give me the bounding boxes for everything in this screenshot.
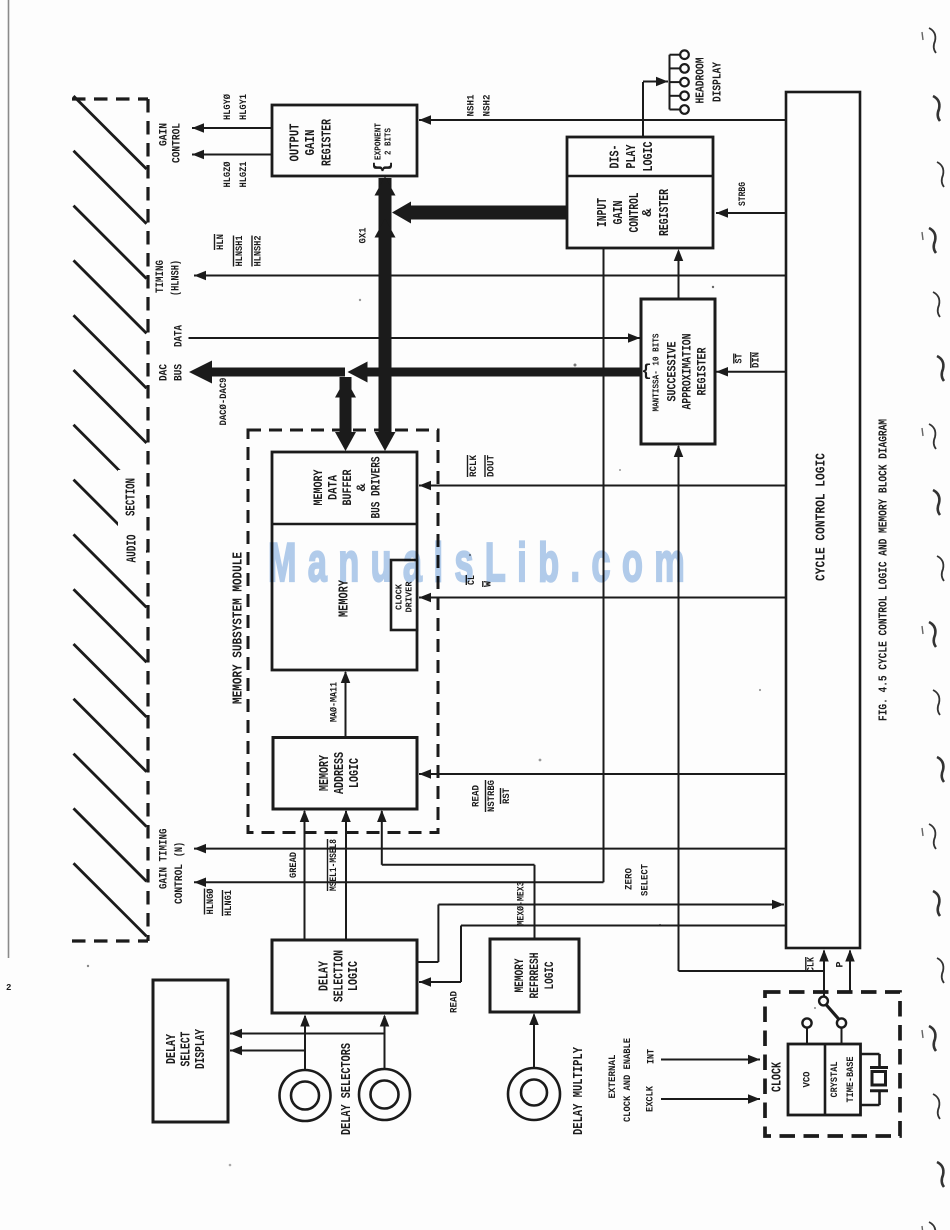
svg-text:HLNSH1: HLNSH1	[234, 236, 246, 267]
svg-text:GAIN: GAIN	[304, 130, 319, 156]
svg-text:GREAD: GREAD	[288, 852, 300, 878]
wire ST DIN	[716, 371, 786, 373]
wire DATA to SAR	[189, 337, 641, 339]
wire headroom display bus	[669, 55, 671, 110]
svg-text:READ: READ	[449, 991, 461, 1013]
wire GREAD feed	[304, 811, 306, 940]
box MEMORY DATA BUFFER	[272, 452, 417, 670]
svg-text:DISPLAY: DISPLAY	[712, 62, 725, 102]
box MEMORY REFRESH LOGIC	[490, 939, 579, 1012]
svg-text:LOGIC: LOGIC	[542, 961, 557, 989]
bus GX1 vertical	[379, 178, 392, 432]
wire CL W to clock driver	[419, 597, 786, 599]
svg-text:MEXØ-MEX3: MEXØ-MEX3	[516, 882, 528, 926]
svg-text:SECTION: SECTION	[125, 478, 140, 516]
wire MEX corner feed	[381, 811, 383, 865]
svg-text:HLNG1: HLNG1	[223, 890, 235, 916]
svg-text:DIS-: DIS-	[609, 145, 624, 169]
box CYCLE CONTROL LOGIC	[786, 92, 860, 948]
svg-text:GAIN: GAIN	[159, 867, 171, 889]
svg-text:ZERO: ZERO	[624, 868, 636, 890]
svg-text:{: {	[641, 363, 651, 382]
svg-text:MSEL1-MSEL8: MSEL1-MSEL8	[328, 839, 340, 891]
svg-text:SELECT: SELECT	[180, 1032, 195, 1067]
box MEMORY ADDRESS LOGIC	[273, 738, 417, 810]
svg-text:LOGIC: LOGIC	[642, 142, 657, 172]
box VCO / CRYSTAL TIME-BASE	[788, 1044, 861, 1115]
svg-text:HLGZ1: HLGZ1	[238, 162, 250, 188]
crystal symbol	[861, 1053, 880, 1056]
headroom display LEDs	[680, 50, 689, 59]
scan dust specks	[574, 364, 577, 367]
wire P to cycle control	[849, 951, 851, 993]
wire gain control upper stub	[192, 127, 272, 129]
svg-text:RCLK: RCLK	[468, 454, 480, 477]
svg-text:(N): (N)	[174, 842, 186, 857]
svg-text:&: &	[641, 208, 656, 217]
box DELAY SELECTION LOGIC	[272, 940, 417, 1013]
svg-text:TIME-BASE: TIME-BASE	[845, 1057, 857, 1103]
wire delay select display lower	[230, 1050, 305, 1052]
svg-text:MEMORY: MEMORY	[318, 754, 333, 791]
svg-text:MEMORY SUBSYSTEM MODULE: MEMORY SUBSYSTEM MODULE	[232, 552, 247, 704]
svg-text:REGISTER: REGISTER	[658, 188, 673, 236]
svg-text:RST: RST	[501, 788, 513, 804]
dashed box MEMORY SUBSYSTEM MODULE	[248, 430, 438, 833]
svg-text:SUCCESSIVE: SUCCESSIVE	[665, 341, 680, 401]
label AUDIO SECTION	[118, 470, 146, 568]
wire ZERO SELECT	[438, 904, 784, 906]
knob delay selector 2	[359, 1069, 410, 1120]
wire TIMING N	[194, 848, 786, 850]
svg-text:DATA: DATA	[326, 475, 341, 500]
bus DAC vertical branch	[340, 377, 352, 432]
wire EXCLK	[661, 1098, 760, 1100]
svg-text:2 BITS: 2 BITS	[383, 128, 394, 155]
wire GAIN CONTROL bottom	[194, 881, 604, 883]
svg-text:DELAY SELECTORS: DELAY SELECTORS	[340, 1043, 355, 1135]
svg-text:MEMORY: MEMORY	[512, 958, 527, 992]
box DELAY SELECT DISPLAY	[153, 980, 228, 1122]
svg-text:DOUT: DOUT	[486, 455, 498, 477]
svg-text:GX1: GX1	[358, 228, 370, 244]
wire delay selector 1 feed	[304, 1016, 306, 1069]
svg-text:READ: READ	[471, 785, 483, 807]
svg-text:DAC: DAC	[159, 364, 171, 381]
svg-text:AUDIO: AUDIO	[126, 535, 141, 563]
svg-text:CYCLE CONTROL LOGIC: CYCLE CONTROL LOGIC	[815, 453, 830, 581]
svg-text:CRYSTAL: CRYSTAL	[829, 1062, 841, 1098]
right edge binder marks	[929, 28, 936, 53]
svg-text:PLAY: PLAY	[625, 144, 640, 169]
svg-text:DELAY: DELAY	[318, 960, 333, 991]
box DISPLAY LOGIC / INPUT GAIN	[567, 137, 713, 248]
svg-text:MANTISSA- 10 BITS: MANTISSA- 10 BITS	[651, 333, 662, 411]
wire SAR clock riser	[678, 446, 680, 971]
svg-text:DISPLAY: DISPLAY	[194, 1028, 209, 1069]
svg-text:EXCLK: EXCLK	[645, 1085, 657, 1112]
wire gain riser from input gain register	[603, 248, 605, 882]
wire delay selector 2 feed	[384, 1016, 386, 1068]
bus GX1 label arrowline to input gain	[410, 206, 567, 220]
svg-text:NSH2: NSH2	[482, 95, 494, 117]
wire READ NSTRBG RST	[419, 773, 786, 775]
switch contact INT	[802, 1018, 811, 1027]
bus DAC left segment	[210, 368, 345, 377]
box SUCCESSIVE APPROXIMATION REGISTER	[641, 299, 715, 444]
svg-text:2: 2	[6, 983, 11, 993]
svg-text:DIN: DIN	[752, 352, 763, 368]
wire MSEL1-MSEL8 feed	[345, 811, 347, 940]
hatched audio section boundary	[72, 97, 148, 100]
wire headroom display feed	[642, 82, 644, 137]
svg-text:EXTERNAL: EXTERNAL	[607, 1055, 619, 1099]
svg-text:OUTPUT: OUTPUT	[289, 124, 304, 162]
box CLOCK DRIVER	[391, 560, 417, 630]
svg-text:DELAY MULTIPLY: DELAY MULTIPLY	[572, 1046, 587, 1135]
svg-text:REGISTER: REGISTER	[321, 118, 336, 166]
svg-text:ADDRESS: ADDRESS	[333, 752, 348, 794]
svg-text:HLN: HLN	[215, 234, 227, 250]
svg-text:HLNGØ: HLNGØ	[205, 888, 217, 915]
svg-text:ST: ST	[735, 354, 746, 364]
switch contact EXT	[837, 1018, 846, 1027]
svg-text:CONTROL: CONTROL	[174, 864, 186, 904]
svg-text:NSH1: NSH1	[466, 95, 478, 117]
svg-text:FIG. 4.5 CYCLE CONTROL LOGIC: FIG. 4.5 CYCLE CONTROL LOGIC AND MEMORY …	[877, 419, 891, 721]
svg-text:GAIN: GAIN	[612, 201, 627, 225]
svg-text:CLOCK: CLOCK	[771, 1061, 786, 1092]
svg-text:HEADROOM: HEADROOM	[695, 57, 708, 103]
svg-text:HLGZØ: HLGZØ	[222, 161, 234, 188]
switch pivot	[819, 997, 828, 1006]
page left edge scan line	[8, 0, 10, 958]
svg-text:BUS DRIVERS: BUS DRIVERS	[369, 456, 384, 518]
svg-text:MAØ-MA11: MAØ-MA11	[329, 682, 341, 722]
svg-text:SELECTION: SELECTION	[333, 950, 348, 1002]
knob delay selector 1	[280, 1070, 331, 1121]
svg-text:DELAY: DELAY	[165, 1033, 180, 1064]
svg-text:VCO: VCO	[802, 1072, 814, 1088]
wire STRBG	[716, 212, 786, 214]
knob delay multiply	[508, 1068, 560, 1120]
svg-text:P: P	[836, 962, 847, 968]
svg-text:TIMING: TIMING	[159, 828, 171, 861]
wire MEX0-MEX3 vertical	[534, 865, 536, 939]
svg-text:HLNSH2: HLNSH2	[253, 236, 265, 267]
svg-text:APPROXIMATION: APPROXIMATION	[680, 334, 695, 410]
wire delay select display upper	[230, 1033, 385, 1035]
svg-text:LOGIC: LOGIC	[347, 961, 362, 991]
bus DAC right segment	[367, 368, 641, 377]
svg-text:SELECT: SELECT	[640, 864, 652, 896]
svg-text:NSTRBG: NSTRBG	[486, 780, 498, 812]
wire TIMING HLNSH	[194, 275, 786, 277]
svg-text:GAIN: GAIN	[159, 123, 171, 146]
svg-text:INPUT: INPUT	[596, 198, 611, 227]
svg-text:INT: INT	[646, 1049, 658, 1064]
svg-text:MEMORY: MEMORY	[311, 469, 326, 505]
wire SAR top to input gain register	[678, 251, 680, 299]
svg-text:BUFFER: BUFFER	[340, 469, 355, 505]
svg-text:{: {	[372, 161, 395, 173]
wire CLK to cycle control	[823, 951, 825, 998]
wire delay multiply feed	[533, 1015, 535, 1068]
svg-text:CLK: CLK	[807, 957, 818, 972]
svg-text:HLGYØ: HLGYØ	[222, 93, 234, 120]
svg-text:(HLNSH): (HLNSH)	[171, 260, 183, 296]
svg-text:LOGIC: LOGIC	[348, 758, 363, 788]
svg-text:&: &	[354, 483, 369, 491]
svg-text:REGISTER: REGISTER	[695, 347, 710, 395]
svg-text:CONTROL: CONTROL	[172, 123, 184, 163]
wire READ middle	[461, 925, 786, 927]
svg-text:TIMING: TIMING	[155, 260, 167, 293]
wire INT	[661, 1059, 760, 1061]
wire gain control lower stub	[192, 154, 272, 156]
svg-text:HLGY1: HLGY1	[238, 94, 250, 120]
svg-text:DATA: DATA	[174, 325, 186, 347]
wire NSH to output gain register	[419, 119, 786, 121]
svg-text:BUS: BUS	[174, 364, 186, 381]
switch lever	[826, 1005, 840, 1021]
svg-text:CLOCK AND ENABLE: CLOCK AND ENABLE	[622, 1038, 634, 1122]
dashed box CLOCK	[765, 992, 900, 1136]
box OUTPUT GAIN REGISTER	[272, 105, 417, 176]
wire MA0-MA11	[345, 672, 347, 738]
wire RCLK DOUT	[419, 485, 786, 487]
svg-text:REFRRESH: REFRRESH	[527, 953, 542, 999]
svg-text:DACØ-DAC9: DACØ-DAC9	[218, 378, 230, 426]
svg-text:STRBG: STRBG	[738, 182, 749, 206]
